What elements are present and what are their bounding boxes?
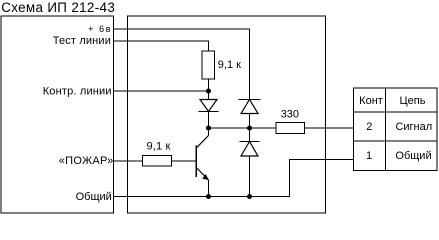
svg-text:Схема ИП 212-43: Схема ИП 212-43	[1, 0, 115, 15]
resistor R3 330	[276, 123, 305, 134]
svg-text:+ 6в: + 6в	[88, 24, 112, 34]
svg-text:Цепь: Цепь	[400, 95, 426, 107]
svg-text:«ПОЖАР»: «ПОЖАР»	[59, 155, 114, 167]
connector table X1	[354, 88, 438, 171]
diode VD3 (right branch lower, cathode up)	[240, 128, 260, 197]
inner circuit box (middle)	[128, 16, 326, 213]
node: Контр. линии junction	[206, 88, 211, 93]
svg-text:Общий: Общий	[76, 191, 112, 203]
svg-text:Сигнал: Сигнал	[395, 121, 432, 133]
wire 330 to connector	[305, 127, 354, 129]
wire Сигнал net (to 330 resistor)	[209, 127, 277, 129]
wire base resistor to transistor base	[172, 160, 197, 162]
svg-text:Конт: Конт	[359, 95, 383, 107]
svg-text:9,1 к: 9,1 к	[147, 140, 171, 152]
wire Общий net	[114, 160, 354, 197]
wire +6в net	[114, 29, 250, 100]
svg-text:Общий: Общий	[395, 150, 431, 162]
node: right branch junction	[247, 125, 252, 130]
emitter arrowhead	[203, 174, 209, 179]
svg-text:330: 330	[281, 109, 299, 121]
detector body box (left)	[1, 16, 114, 213]
resistor R1 9,1 к (vertical)	[202, 51, 215, 79]
node: collector junction	[206, 125, 211, 130]
diode VD2 (right branch upper, cathode up)	[239, 100, 261, 129]
wire R1 bottom lead	[208, 79, 210, 91]
wire ПОЖАР net (to base resistor)	[114, 160, 143, 162]
wire Тест линии net	[114, 41, 209, 51]
wire Контр. линии net	[114, 90, 209, 92]
svg-text:Контр. линии: Контр. линии	[43, 86, 112, 98]
svg-text:9,1 к: 9,1 к	[218, 59, 241, 71]
collector lead	[208, 128, 210, 136]
emitter lead	[197, 168, 209, 180]
svg-text:1: 1	[366, 150, 372, 162]
node: emitter/Общий junction	[206, 194, 211, 199]
diode VD1 (left branch, cathode down)	[199, 91, 219, 128]
node: right branch bottom junction	[247, 194, 252, 199]
svg-text:Тест линии: Тест линии	[53, 35, 111, 47]
resistor R2 9,1 к (horizontal, base)	[143, 156, 172, 167]
base bar	[195, 146, 197, 178]
transistor VT1 (NPN)	[196, 128, 208, 197]
svg-text:2: 2	[366, 121, 372, 133]
